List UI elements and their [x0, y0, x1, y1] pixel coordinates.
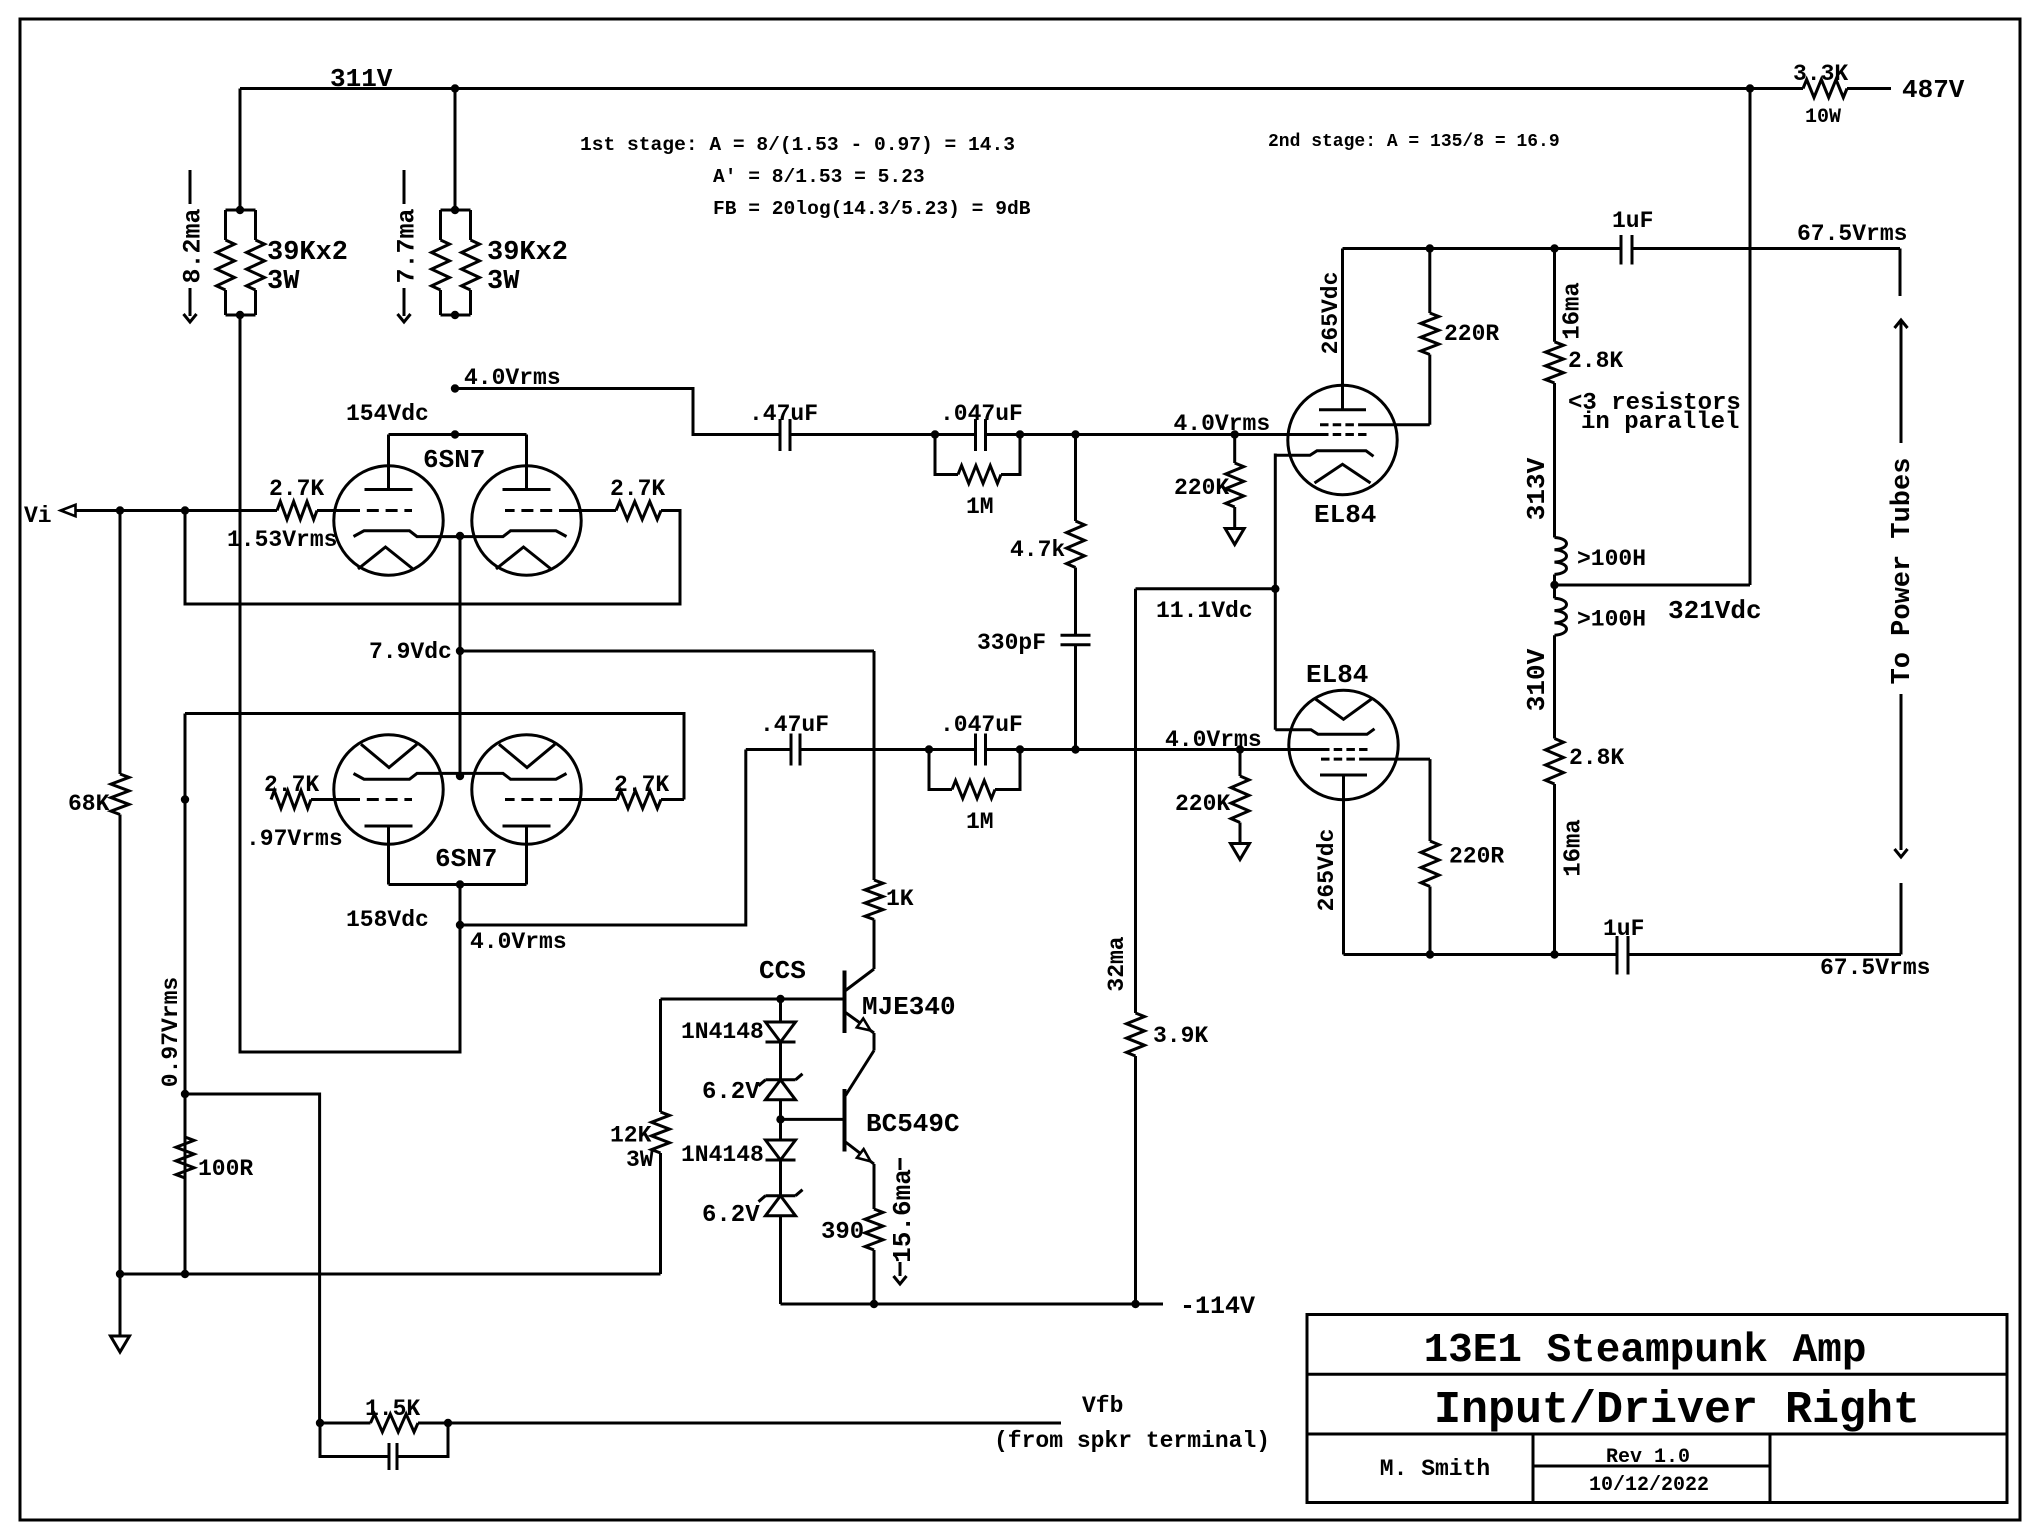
svg-text:265Vdc: 265Vdc [1318, 272, 1344, 355]
wire 158 node to coupling [460, 750, 746, 926]
wire lower coupling b [800, 745, 976, 753]
label 2.8K lower [1569, 745, 1624, 771]
wire upper grid loop [185, 511, 680, 605]
resistor 220K lower [1231, 750, 1249, 844]
label 1uF lower [1603, 916, 1644, 942]
junction on 311V rail at R 39Kx2b [451, 84, 459, 92]
tube 6SN7 V1a envelope [334, 466, 443, 575]
wire lower grid loop top [185, 714, 684, 800]
label 7.9Vdc [369, 639, 452, 665]
junction 11.1Vdc [1271, 585, 1279, 593]
svg-text:1N4148: 1N4148 [681, 1142, 764, 1168]
wire plate tie V1a-V1b [389, 430, 527, 438]
tube EL84 V2 envelope [1288, 385, 1397, 494]
wire bottom tie [120, 1273, 661, 1276]
label 220R upper [1444, 321, 1499, 347]
label 11.1Vdc [1156, 598, 1253, 624]
V1a plate [365, 435, 413, 490]
label 330pF [977, 630, 1046, 656]
wire midpoint to 487V column [1555, 89, 1751, 586]
capacitor .047uF lower [976, 734, 986, 766]
zener 6.2V upper [759, 1074, 803, 1100]
V4a heater [361, 744, 417, 767]
svg-text:0.97Vrms: 0.97Vrms [158, 977, 184, 1087]
wire plates to 158Vdc node [456, 885, 464, 930]
svg-text:7.9Vdc: 7.9Vdc [369, 639, 452, 665]
svg-text:321Vdc: 321Vdc [1668, 596, 1762, 626]
label 2.7K V1b [610, 476, 665, 502]
rotlabel To Power Tubes [1888, 458, 1918, 685]
V2 grid2 dashes [1320, 423, 1362, 426]
junction bottom left a [116, 1270, 124, 1278]
junction cathodes upper [456, 532, 464, 540]
label 1N4148 upper [681, 1019, 764, 1045]
label Vfb [1082, 1393, 1123, 1419]
svg-text:.47uF: .47uF [760, 712, 829, 738]
svg-text:10W: 10W [1805, 106, 1841, 129]
label 2.7K V1a [269, 476, 324, 502]
resistor 39Kx2 3W (left pair) [217, 206, 265, 319]
svg-text:FB = 20log(14.3/5.23) = 9dB: FB = 20log(14.3/5.23) = 9dB [713, 198, 1031, 220]
svg-text:To Power Tubes: To Power Tubes [1888, 458, 1918, 685]
svg-text:158Vdc: 158Vdc [346, 907, 429, 933]
junction 7.9Vdc [456, 647, 464, 655]
wire 265Vdc rail lower [1344, 950, 1618, 958]
ground arrow 220K upper [1225, 529, 1244, 545]
svg-text:15.6ma: 15.6ma [888, 1169, 918, 1263]
capacitor 1uF lower [1617, 936, 1628, 975]
label 1K [886, 886, 914, 912]
V4b plate [503, 826, 551, 885]
diode 1N4148 upper [766, 1022, 796, 1042]
svg-text:310V: 310V [1522, 648, 1552, 711]
svg-text:487V: 487V [1902, 75, 1965, 105]
V1b cathode [460, 531, 567, 537]
wire rail left drop to R 39Kx2a [239, 89, 242, 211]
junction EL84b grid stopper [1236, 745, 1244, 753]
label 4.0Vrms EL84a [1174, 411, 1271, 437]
wire Vfb [448, 1422, 1061, 1425]
note 1st stage gain [580, 134, 1015, 156]
V4b grid dashes [505, 798, 571, 801]
svg-text:154Vdc: 154Vdc [346, 401, 429, 427]
V2 cathode [1275, 451, 1373, 457]
resistor 2.8K lower [1546, 739, 1564, 955]
wire BC base [781, 1118, 845, 1121]
resistor 2.7K (V4a grid) [271, 791, 311, 809]
svg-text:11.1Vdc: 11.1Vdc [1156, 598, 1253, 624]
note feedback [713, 198, 1031, 220]
label 3.3K [1793, 61, 1848, 87]
note 2nd stage gain [1268, 132, 1560, 152]
rotlabel 310V [1522, 648, 1552, 711]
label 39Kx2 right [487, 238, 568, 297]
label 10W [1805, 106, 1841, 129]
resistor 2.7K (V4b grid) [617, 791, 661, 809]
label BC549C [866, 1109, 960, 1139]
label 390 [821, 1219, 864, 1246]
junction 0.97 branch [181, 1090, 189, 1098]
label EL84 upper [1314, 500, 1376, 530]
transistor MJE340 [845, 969, 875, 1033]
V2 grid2 lead [1362, 423, 1430, 426]
rotlabel 0.97Vrms [158, 977, 184, 1087]
svg-text:6.2V: 6.2V [702, 1202, 760, 1229]
svg-text:A' = 8/1.53 = 5.23: A' = 8/1.53 = 5.23 [713, 166, 925, 188]
label 2.7K V4b [614, 772, 669, 798]
svg-text:CCS: CCS [759, 956, 806, 986]
label .047uF upper [940, 401, 1023, 427]
svg-text:10/12/2022: 10/12/2022 [1589, 1474, 1709, 1497]
junction Vfb left [316, 1419, 324, 1427]
V4b heater [499, 744, 555, 767]
port Vi [24, 503, 76, 529]
wire chain to -114V rail [779, 1216, 782, 1304]
svg-text:68K: 68K [68, 791, 110, 817]
svg-text:3W: 3W [487, 267, 520, 297]
svg-text:1M: 1M [966, 809, 994, 835]
V4a grid dashes [348, 798, 412, 801]
svg-text:1N4148: 1N4148 [681, 1019, 764, 1045]
diode 1N4148 lower [766, 1140, 796, 1160]
wire rail drop to R 39Kx2b [454, 89, 457, 211]
V3 heater [1316, 699, 1372, 719]
label 6.2V upper [702, 1079, 760, 1106]
label CCS [759, 956, 806, 986]
label 321Vdc [1668, 596, 1762, 626]
title Input/Driver Right [1434, 1385, 1920, 1436]
capacitor .047uF upper [976, 419, 986, 451]
wire MJE base [661, 995, 845, 1003]
transistor BC549C [845, 1089, 875, 1164]
resistor 2.7K (V1a grid) [277, 502, 317, 520]
label 2.8K upper [1568, 348, 1623, 374]
svg-text:Input/Driver Right: Input/Driver Right [1434, 1385, 1920, 1436]
wire diode chain top [779, 999, 782, 1022]
wire .047uF out [986, 430, 1321, 438]
V2 heater [1315, 464, 1371, 483]
label 4.0Vrms upper [464, 365, 561, 391]
wire Vi to grid resistor [76, 509, 278, 512]
wire d1 to z1 [779, 1042, 782, 1080]
V1b heater [496, 547, 551, 569]
svg-text:Vfb: Vfb [1082, 1393, 1123, 1419]
resistor 1M lower bypass [929, 750, 1020, 799]
capacitor .47uF upper [780, 419, 790, 451]
svg-text:2.7K: 2.7K [269, 476, 324, 502]
svg-text:1st stage: A = 8/(1.53 - 0.97: 1st stage: A = 8/(1.53 - 0.97) = 14.3 [580, 134, 1015, 156]
resistor 2.7K (V1b grid) [616, 502, 661, 520]
label 6SN7 upper [423, 445, 485, 475]
svg-text:Rev 1.0: Rev 1.0 [1606, 1446, 1690, 1469]
tube EL84 V3 envelope [1289, 690, 1398, 799]
title Rev 1.0 [1606, 1446, 1690, 1469]
svg-text:4.0Vrms: 4.0Vrms [1174, 411, 1271, 437]
svg-text:.97Vrms: .97Vrms [246, 826, 343, 852]
svg-text:265Vdc: 265Vdc [1314, 829, 1340, 912]
junction Vfb right [444, 1419, 452, 1427]
resistor 2.8K upper [1546, 249, 1564, 538]
wire 11.1Vdc [1136, 587, 1276, 590]
label .047uF lower [940, 712, 1023, 738]
svg-text:-114V: -114V [1180, 1292, 1255, 1321]
junction Vi / 68K [116, 506, 124, 514]
wire V4a grid lead [311, 798, 348, 801]
wire grid lead V1a [317, 509, 348, 512]
label 154Vdc [346, 401, 429, 427]
junction 330pF tap [1071, 745, 1079, 753]
junction 4.0Vrms upper [451, 384, 459, 392]
wire lower coupling a [746, 748, 791, 751]
svg-text:.047uF: .047uF [940, 712, 1023, 738]
V4a plate [365, 826, 413, 885]
rotlabel 313V [1522, 457, 1552, 520]
wire cap to .047uF [790, 430, 976, 438]
tube 6SN7 V4a envelope [334, 735, 443, 844]
V1a grid dashes [348, 509, 412, 512]
svg-text:EL84: EL84 [1306, 660, 1368, 690]
resistor 12K 3W [652, 999, 670, 1274]
svg-text:4.0Vrms: 4.0Vrms [1165, 727, 1262, 753]
label 3.9K [1153, 1023, 1208, 1049]
svg-text:2.7K: 2.7K [614, 772, 669, 798]
V1a heater [358, 547, 413, 569]
label 67.5Vrms upper [1797, 221, 1907, 247]
svg-text:4.7k: 4.7k [1010, 537, 1065, 563]
junction bottom left b [181, 1270, 189, 1278]
V3 grid2 dashes [1321, 758, 1363, 761]
rotlabel 32ma [1104, 936, 1130, 991]
resistor 1.5K [320, 1414, 448, 1432]
svg-text:16ma: 16ma [1560, 282, 1587, 340]
svg-text:220R: 220R [1449, 844, 1504, 870]
wire d2 to z2 [779, 1160, 782, 1196]
label 220K lower [1175, 791, 1230, 817]
rotlabel 16ma upper [1560, 282, 1587, 340]
label 6.2V lower [702, 1202, 760, 1229]
svg-text:39Kx2: 39Kx2 [267, 238, 348, 268]
svg-text:67.5Vrms: 67.5Vrms [1797, 221, 1907, 247]
node 311V label [330, 64, 393, 94]
junction Vi / feedback [181, 506, 189, 514]
wire lower coupling c [986, 745, 1322, 753]
wire V4b grid lead [571, 798, 617, 801]
label 1.53Vrms [227, 527, 337, 553]
svg-text:>100H: >100H [1577, 607, 1646, 633]
resistor 3.9K [1127, 589, 1145, 1304]
svg-text:.047uF: .047uF [940, 401, 1023, 427]
svg-text:BC549C: BC549C [866, 1109, 960, 1139]
V4a cathode [354, 773, 461, 779]
svg-text:MJE340: MJE340 [862, 992, 956, 1022]
svg-text:M. Smith: M. Smith [1380, 1456, 1490, 1482]
svg-text:3W: 3W [267, 267, 300, 297]
wire 68K to ground [119, 1274, 122, 1336]
svg-text:313V: 313V [1522, 457, 1552, 520]
svg-text:6SN7: 6SN7 [435, 844, 497, 874]
wire -114V rail [781, 1300, 1164, 1308]
note A-prime [713, 166, 925, 188]
resistor 220K upper [1226, 435, 1244, 529]
label 1N4148 lower [681, 1142, 764, 1168]
label 1M lower [966, 809, 994, 835]
svg-text:in parallel: in parallel [1581, 409, 1739, 436]
label .47uF upper [749, 401, 818, 427]
label .97Vrms [246, 826, 343, 852]
svg-text:.47uF: .47uF [749, 401, 818, 427]
svg-text:220K: 220K [1174, 475, 1229, 501]
label 12K [610, 1123, 654, 1174]
label 1uF upper [1612, 208, 1653, 234]
svg-text:16ma: 16ma [1561, 819, 1588, 877]
svg-text:390: 390 [821, 1219, 864, 1246]
wire V1b grid lead [571, 509, 616, 512]
svg-text:EL84: EL84 [1314, 500, 1376, 530]
svg-text:3.3K: 3.3K [1793, 61, 1848, 87]
svg-text:13E1 Steampunk Amp: 13E1 Steampunk Amp [1424, 1328, 1867, 1374]
resistor 68K [111, 511, 129, 1275]
label EL84 lower [1306, 660, 1368, 690]
V1a cathode [354, 531, 461, 537]
label 100H upper [1577, 546, 1646, 572]
svg-text:2.7K: 2.7K [264, 772, 319, 798]
arrow down from label [1895, 694, 1908, 857]
resistor 1K [865, 651, 883, 969]
junction on 311V rail to 3.3K [1746, 84, 1754, 92]
rotlabel 265Vdc upper [1318, 272, 1344, 355]
junction lower grids [181, 795, 189, 803]
V2 plate [1319, 249, 1366, 410]
wire 7.9Vdc to CCS [460, 650, 874, 653]
wire z1 to junction [779, 1100, 782, 1140]
wire 4.0Vrms to coupling cap [455, 389, 780, 435]
ground symbol main [111, 1336, 130, 1352]
resistor 220R upper [1421, 249, 1439, 425]
rotlabel 16ma lower [1561, 819, 1588, 877]
tube 6SN7 V4b envelope [472, 735, 581, 844]
svg-text:220K: 220K [1175, 791, 1230, 817]
svg-text:3.9K: 3.9K [1153, 1023, 1208, 1049]
svg-text:1uF: 1uF [1612, 208, 1653, 234]
svg-text:100R: 100R [198, 1156, 253, 1182]
svg-text:12K: 12K [610, 1123, 652, 1149]
current arrow 7.7ma [393, 170, 422, 322]
junction 4.7k tap [1071, 430, 1079, 438]
node 487V label [1902, 75, 1965, 105]
label 68K [68, 791, 110, 817]
label 4.0Vrms EL84b [1165, 727, 1262, 753]
svg-text:1.5K: 1.5K [365, 1396, 420, 1422]
title block frame [1307, 1315, 2007, 1503]
svg-text:4.0Vrms: 4.0Vrms [470, 929, 567, 955]
wire MJE emitter to BC collector [846, 1033, 875, 1096]
V3 grid2 lead [1363, 758, 1430, 761]
label 4.7k [1010, 537, 1065, 563]
tube 6SN7 V1b envelope [472, 466, 581, 575]
wire 0.97 branch [185, 1094, 320, 1423]
current arrow 15.6ma [888, 1158, 918, 1284]
svg-text:3W: 3W [626, 1147, 654, 1173]
capacitor .47uF lower [791, 734, 800, 766]
wire plate tie lower [389, 880, 527, 888]
svg-text:6SN7: 6SN7 [423, 445, 485, 475]
V3 grid1 dashes [1321, 748, 1368, 751]
capacitor fb [320, 1423, 448, 1470]
svg-text:330pF: 330pF [977, 630, 1046, 656]
label 2.7K V4a [264, 772, 319, 798]
wire 311V rail [240, 87, 1750, 90]
svg-text:32ma: 32ma [1104, 936, 1130, 991]
ground arrow 220K lower [1231, 844, 1250, 860]
svg-text:2.8K: 2.8K [1568, 348, 1623, 374]
svg-text:1.53Vrms: 1.53Vrms [227, 527, 337, 553]
svg-text:1uF: 1uF [1603, 916, 1644, 942]
label 1.5K [365, 1396, 420, 1422]
svg-text:8.2ma: 8.2ma [179, 208, 208, 283]
label 158Vdc [346, 907, 429, 933]
svg-text:220R: 220R [1444, 321, 1499, 347]
current arrow 8.2ma [179, 170, 208, 322]
inductor 100H lower [1555, 585, 1567, 739]
wire cathode column [459, 536, 462, 777]
svg-text:7.7ma: 7.7ma [393, 208, 422, 283]
label 4.0Vrms stage2 [470, 929, 567, 955]
label -114V [1180, 1292, 1255, 1321]
resistor 390 [865, 1209, 883, 1304]
svg-text:67.5Vrms: 67.5Vrms [1820, 955, 1930, 981]
label 220R lower [1449, 844, 1504, 870]
svg-text:(from spkr terminal): (from spkr terminal) [994, 1428, 1270, 1454]
note 3 resistors [1568, 390, 1741, 436]
wire cathode link EL84s [1274, 454, 1277, 730]
title 13E1 Steampunk Amp [1424, 1328, 1867, 1374]
svg-text:6.2V: 6.2V [702, 1079, 760, 1106]
V3 plate [1320, 775, 1367, 955]
V1b grid dashes [505, 509, 571, 512]
resistor 3.3K 10W [1750, 80, 1891, 98]
resistor 100R [176, 1137, 194, 1178]
junction EL84a grid stopper [1231, 430, 1239, 438]
V1b plate [503, 435, 551, 490]
junction choke midpoint [1550, 581, 1558, 589]
label 39Kx2 left [267, 238, 348, 297]
svg-text:1K: 1K [886, 886, 914, 912]
wire 1uF to right corner [1632, 249, 1900, 297]
inductor 100H upper [1555, 538, 1567, 586]
svg-text:Vi: Vi [24, 503, 52, 529]
zener 6.2V lower [759, 1190, 803, 1216]
junction cathodes lower [456, 772, 464, 780]
svg-text:1M: 1M [966, 494, 994, 520]
title M. Smith [1380, 1456, 1490, 1482]
label 100H lower [1577, 607, 1646, 633]
svg-text:2.7K: 2.7K [610, 476, 665, 502]
wire lower 67.5 corner [1628, 883, 1901, 955]
wire 265Vdc rail upper [1343, 244, 1622, 252]
svg-text:39Kx2: 39Kx2 [487, 238, 568, 268]
resistor 1M upper bypass [935, 435, 1020, 484]
label MJE340 [862, 992, 956, 1022]
wire 158 node to load [240, 315, 460, 1052]
resistor 39Kx2 3W (right pair) [432, 206, 480, 319]
label 220K upper [1174, 475, 1229, 501]
V3 cathode [1275, 729, 1374, 735]
label 1M upper [966, 494, 994, 520]
V2 grid1 dashes [1320, 433, 1367, 436]
V4b cathode [460, 773, 567, 779]
wire BC emitter [873, 1164, 876, 1209]
rotlabel 265Vdc lower [1314, 829, 1340, 912]
